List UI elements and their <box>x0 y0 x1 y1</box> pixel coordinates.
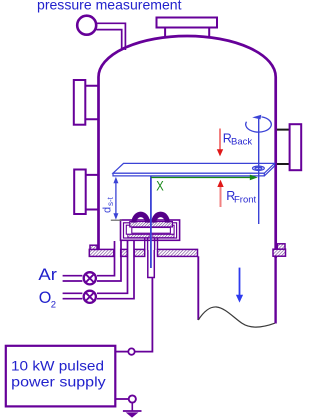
magnet yoke left (hatched) <box>128 234 149 237</box>
substrate holder plate <box>113 163 275 176</box>
pressure gauge <box>77 16 96 35</box>
magnet pole right (half ring) <box>151 212 170 223</box>
rotation axis <box>258 119 260 224</box>
svg-text:2: 2 <box>51 299 56 310</box>
svg-text:Ar: Ar <box>38 266 57 284</box>
chamber vessel <box>99 36 276 258</box>
R front arrow (red) <box>220 186 222 207</box>
supply ground terminal <box>116 398 129 400</box>
Ar gas line <box>63 241 121 281</box>
svg-text:O: O <box>39 288 52 307</box>
svg-text:Back: Back <box>231 137 252 148</box>
left flange 2 <box>74 170 86 215</box>
target window <box>132 228 171 234</box>
svg-text:power supply: power supply <box>11 374 106 390</box>
O2 valve <box>84 291 96 303</box>
R back arrow (red) <box>219 129 221 151</box>
svg-text:d: d <box>102 207 114 213</box>
right flange <box>290 124 302 170</box>
svg-text:10 kW pulsed: 10 kW pulsed <box>11 357 104 373</box>
target level tick <box>111 219 122 221</box>
power supply box <box>6 346 116 407</box>
magnet pole left (half ring) <box>131 212 150 223</box>
left flange 1 connectors <box>86 86 98 120</box>
target (hatched bar) <box>130 222 173 227</box>
ground symbol <box>131 403 133 411</box>
magnetron pedestal <box>145 239 158 251</box>
right flange connectors <box>277 130 290 164</box>
rotation arrow <box>246 117 272 132</box>
svg-text:pressure measurement: pressure measurement <box>37 0 182 13</box>
svg-text:s-t: s-t <box>106 196 115 206</box>
top port flange <box>157 18 218 28</box>
gauge pipe <box>96 23 126 50</box>
top port neck <box>165 27 209 39</box>
svg-text:Front: Front <box>234 195 257 206</box>
substrate-target distance dimension <box>113 177 118 220</box>
axis hole <box>253 166 265 170</box>
pump tube <box>197 256 199 320</box>
left flange 2 connectors <box>86 175 98 210</box>
O2 gas line <box>63 241 134 299</box>
supply output terminal <box>116 351 129 353</box>
X axis arrow (green) <box>151 176 251 178</box>
magnetron outer shield <box>121 220 180 240</box>
Ar valve <box>84 272 96 284</box>
pump flow arrow <box>236 268 243 303</box>
power wire from feedthrough to supply <box>135 278 152 352</box>
magnet yoke right (hatched) <box>153 234 174 237</box>
label d_s-t <box>102 196 116 213</box>
magnetron shield wall 3 <box>126 225 174 234</box>
feedthrough tube below plate <box>148 250 155 278</box>
magnetron shield wall 2 <box>124 223 177 238</box>
cathode electrode (blue line) <box>150 177 152 269</box>
chamber bottom plate (hatched) <box>89 244 285 257</box>
left flange 1 <box>74 80 86 125</box>
svg-text:X: X <box>156 178 164 193</box>
pump tube cut (wavy line) <box>198 307 274 327</box>
